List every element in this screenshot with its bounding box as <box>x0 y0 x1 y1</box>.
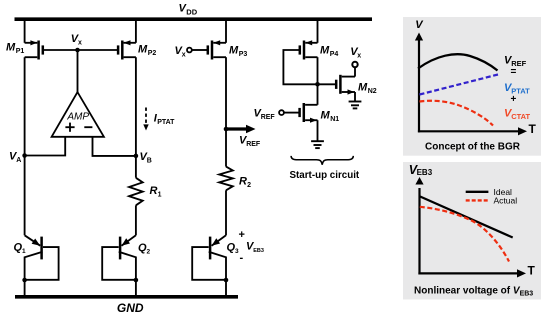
svg-text:Actual: Actual <box>494 196 518 206</box>
node VB <box>134 154 139 159</box>
Vx input terminal of MP3 <box>175 45 208 59</box>
panel: Nonlinear voltage of VEB3 <box>403 162 541 300</box>
svg-text:T: T <box>529 122 537 136</box>
node startup <box>315 82 320 87</box>
svg-text:+: + <box>511 94 517 105</box>
GND rail <box>15 295 238 299</box>
transistor Q1 <box>22 235 58 295</box>
transistor Q2 <box>102 235 138 295</box>
wire: MP3 source to VDD <box>225 19 227 43</box>
wire: amp plus input to VA <box>25 137 66 156</box>
wire: MP3 drain to VREF node and R2 <box>225 57 227 166</box>
Ideal line <box>420 196 513 237</box>
svg-text:Vx: Vx <box>350 46 361 60</box>
y axis <box>418 38 420 132</box>
wire: Vx to amp output <box>77 50 79 92</box>
svg-text:T: T <box>528 263 536 277</box>
wire: MP2 source to VDD <box>135 19 137 43</box>
svg-text:Q1: Q1 <box>14 242 27 256</box>
ground under MN2 <box>349 102 362 109</box>
svg-text:R2: R2 <box>239 176 251 190</box>
current IPTAT dashed arrow <box>143 108 148 131</box>
svg-text:Start-up circuit: Start-up circuit <box>290 170 360 181</box>
transistor MN1 <box>300 103 318 123</box>
svg-text:VB: VB <box>140 151 152 165</box>
wire: gate bus MP1-MP2 <box>43 49 118 51</box>
transistor MP2 <box>118 40 136 59</box>
transistor MP4 <box>300 40 318 59</box>
VDD rail <box>15 17 373 21</box>
wire: MP4 source to VDD <box>317 19 319 43</box>
wire: node to MN2 gate <box>318 83 336 85</box>
svg-text:VREF: VREF <box>254 107 276 121</box>
curve VCTAT dashed <box>420 101 494 126</box>
svg-text:MP1: MP1 <box>6 42 24 56</box>
node VA <box>22 153 27 158</box>
svg-text:VREF: VREF <box>239 134 261 148</box>
svg-text:Vx: Vx <box>71 33 82 47</box>
y axis <box>418 188 420 275</box>
node Vx <box>75 48 80 53</box>
wire: MN1 source to ground <box>317 120 319 141</box>
op-amp AMP <box>52 92 104 137</box>
svg-text:Q3: Q3 <box>227 242 240 256</box>
legend Ideal <box>466 191 489 193</box>
wire: MN2 source to ground <box>354 92 356 102</box>
svg-text:VDD: VDD <box>179 3 198 17</box>
VREF output arrow <box>227 125 256 134</box>
wire: R2 to Q3 <box>225 190 227 235</box>
svg-text:MP4: MP4 <box>320 45 338 59</box>
wire: MP4 gate loop to drain node <box>283 50 317 84</box>
panel: Concept of the BGR <box>403 17 541 156</box>
wire: MP1 drain down to Q1 <box>24 57 26 235</box>
svg-text:Q2: Q2 <box>138 242 151 256</box>
wire: MP1 source to VDD <box>24 19 26 43</box>
transistor MN2 <box>336 75 355 95</box>
svg-text:+: + <box>239 229 245 241</box>
ground under MN1 <box>311 141 324 148</box>
Actual curve dashed <box>420 207 509 262</box>
svg-text:=: = <box>511 67 517 78</box>
Vx terminal of MN2 <box>350 46 361 67</box>
wire: R1 to Q2 <box>135 205 137 235</box>
svg-text:Nonlinear voltage of VEB3: Nonlinear voltage of VEB3 <box>414 286 533 298</box>
wire: MP4 drain down to MN1 drain <box>317 57 319 105</box>
svg-text:MP2: MP2 <box>138 44 156 58</box>
wire: MN2 drain to Vx terminal <box>354 67 356 77</box>
resistor R2 <box>219 167 233 191</box>
svg-text:R1: R1 <box>150 185 162 199</box>
node VREF <box>224 127 229 132</box>
svg-text:Vx: Vx <box>175 45 186 59</box>
transistor Q3 <box>192 235 228 295</box>
legend Actual <box>466 199 489 201</box>
transistor MP3 <box>208 40 226 59</box>
svg-text:GND: GND <box>117 301 144 315</box>
curve VPTAT dashed <box>420 75 499 95</box>
x axis <box>418 130 518 132</box>
svg-text:IPTAT: IPTAT <box>154 113 175 127</box>
curve VREF <box>418 54 498 70</box>
svg-text:-: - <box>240 252 244 264</box>
svg-text:Concept of the BGR: Concept of the BGR <box>425 142 521 153</box>
resistor R1 <box>129 178 143 206</box>
svg-text:VEB3: VEB3 <box>246 241 264 254</box>
start-up circuit brace <box>291 156 353 165</box>
wire: amp minus input to VB <box>93 137 136 156</box>
wire: MP2 drain to VB and R1 <box>135 57 137 178</box>
transistor MP1 <box>25 40 43 59</box>
svg-text:MP3: MP3 <box>229 45 247 59</box>
x axis <box>418 272 517 274</box>
svg-text:MN1: MN1 <box>321 110 340 124</box>
svg-text:AMP: AMP <box>66 111 89 122</box>
VREF input terminal of MN1 <box>254 107 300 121</box>
svg-text:MN2: MN2 <box>358 82 377 96</box>
svg-text:VA: VA <box>9 151 21 165</box>
